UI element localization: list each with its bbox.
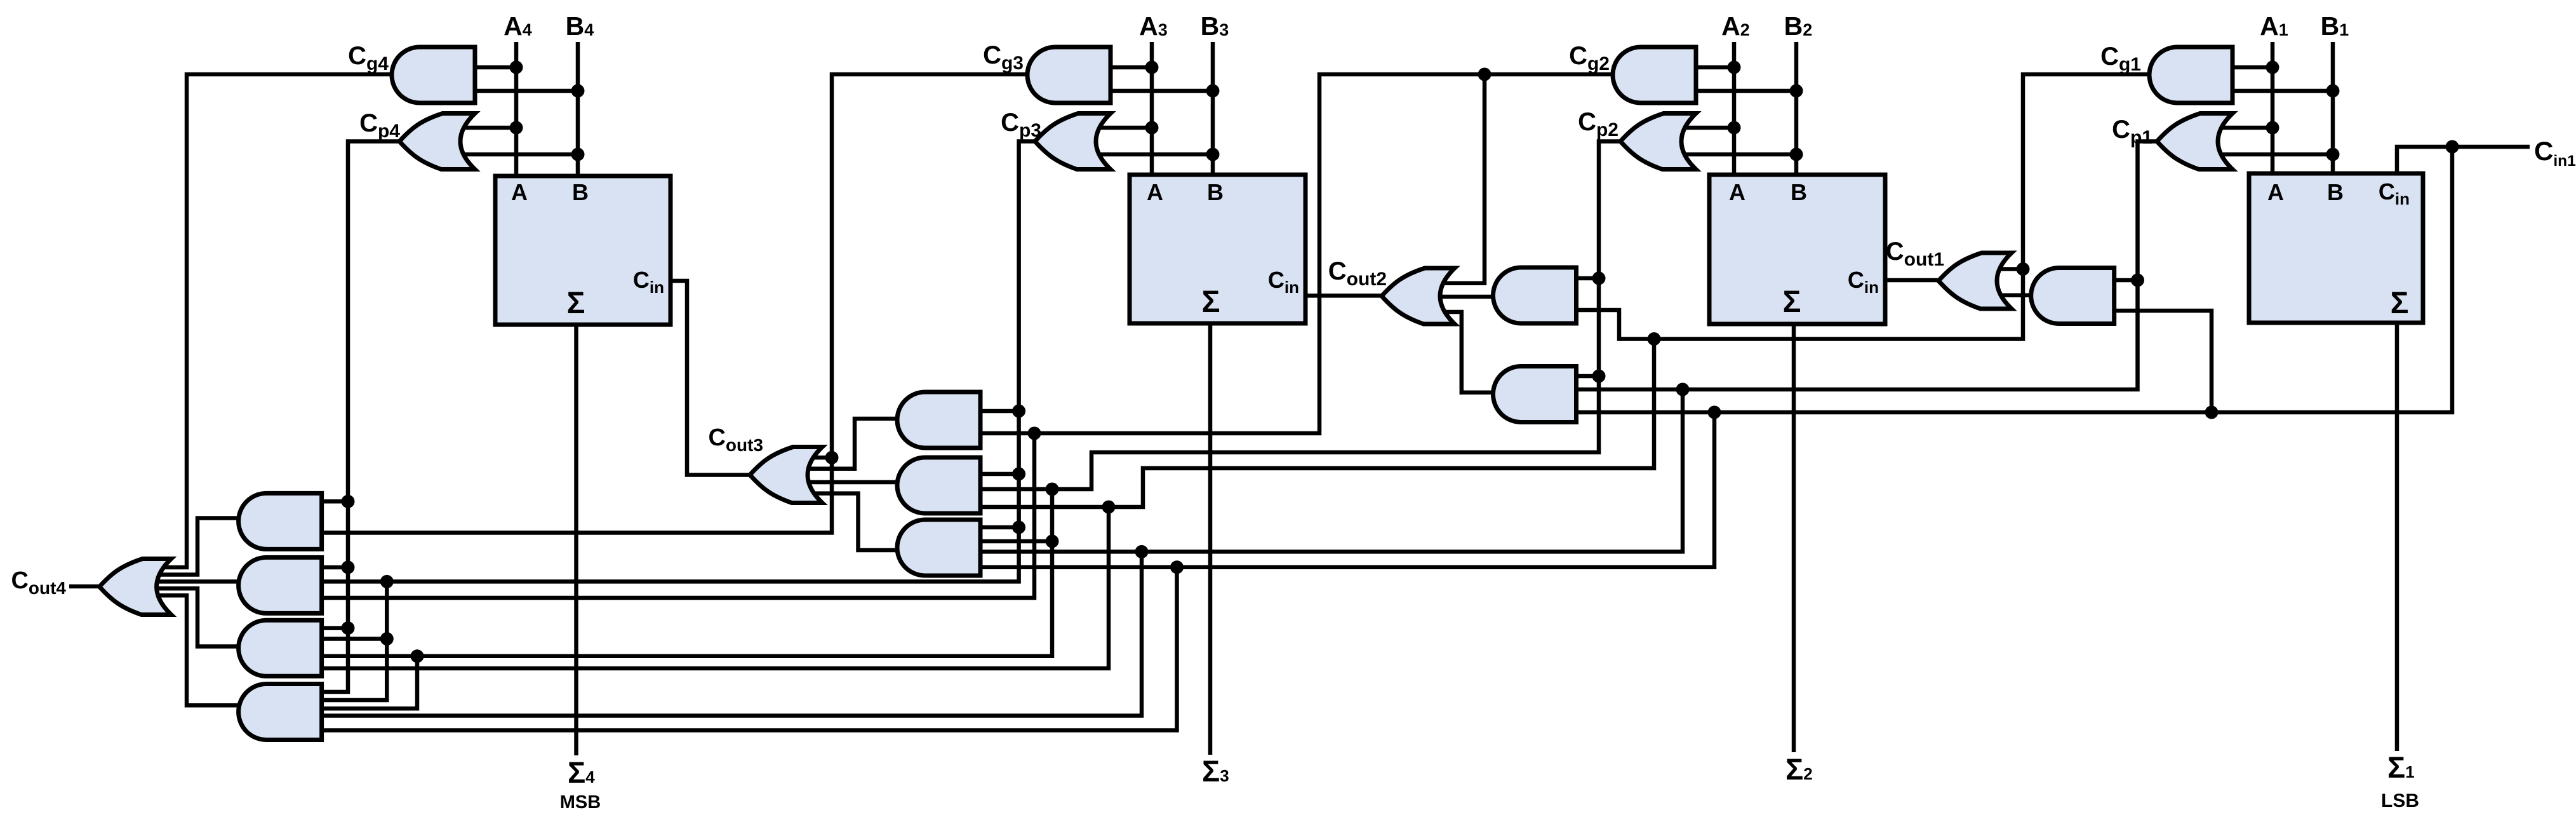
svg-text:Cout1: Cout1	[1886, 238, 1944, 270]
svg-text:A4: A4	[504, 11, 532, 41]
svg-text:Σ3: Σ3	[1202, 754, 1229, 788]
svg-text:LSB: LSB	[2381, 790, 2419, 811]
svg-text:Cp2: Cp2	[1578, 108, 1618, 140]
svg-text:Cp4: Cp4	[359, 109, 400, 142]
svg-text:MSB: MSB	[560, 792, 601, 813]
svg-text:Cout3: Cout3	[708, 424, 763, 455]
svg-text:Cg3: Cg3	[983, 41, 1024, 74]
svg-text:Cg2: Cg2	[1569, 42, 1610, 74]
svg-text:B: B	[2327, 179, 2344, 205]
svg-text:Cg1: Cg1	[2100, 43, 2141, 75]
svg-text:Σ1: Σ1	[2387, 750, 2415, 784]
svg-text:Σ2: Σ2	[1785, 752, 1813, 786]
svg-text:Cout2: Cout2	[1328, 257, 1387, 290]
svg-text:Σ: Σ	[1202, 285, 1220, 319]
svg-text:Cp3: Cp3	[1001, 109, 1041, 141]
svg-text:A: A	[1147, 179, 1163, 205]
svg-text:B3: B3	[1201, 11, 1229, 41]
svg-text:Cin1: Cin1	[2534, 136, 2576, 170]
svg-text:A: A	[2267, 179, 2284, 205]
svg-text:A1: A1	[2260, 11, 2288, 41]
svg-text:A: A	[511, 179, 528, 205]
svg-text:B1: B1	[2321, 11, 2349, 41]
svg-text:Σ: Σ	[2391, 287, 2409, 320]
svg-text:Cp1: Cp1	[2112, 116, 2152, 148]
svg-text:Σ: Σ	[1783, 285, 1801, 319]
svg-text:Cg4: Cg4	[348, 42, 389, 74]
svg-text:A3: A3	[1139, 11, 1168, 41]
svg-text:B4: B4	[566, 11, 594, 41]
svg-text:Cout4: Cout4	[11, 567, 66, 598]
svg-text:Σ4: Σ4	[568, 755, 595, 789]
svg-text:B2: B2	[1784, 11, 1813, 41]
svg-text:Σ: Σ	[567, 287, 585, 320]
svg-text:A: A	[1729, 179, 1745, 205]
svg-text:A2: A2	[1721, 11, 1750, 41]
svg-text:B: B	[572, 179, 589, 205]
svg-text:B: B	[1791, 179, 1807, 205]
svg-text:B: B	[1207, 179, 1224, 205]
